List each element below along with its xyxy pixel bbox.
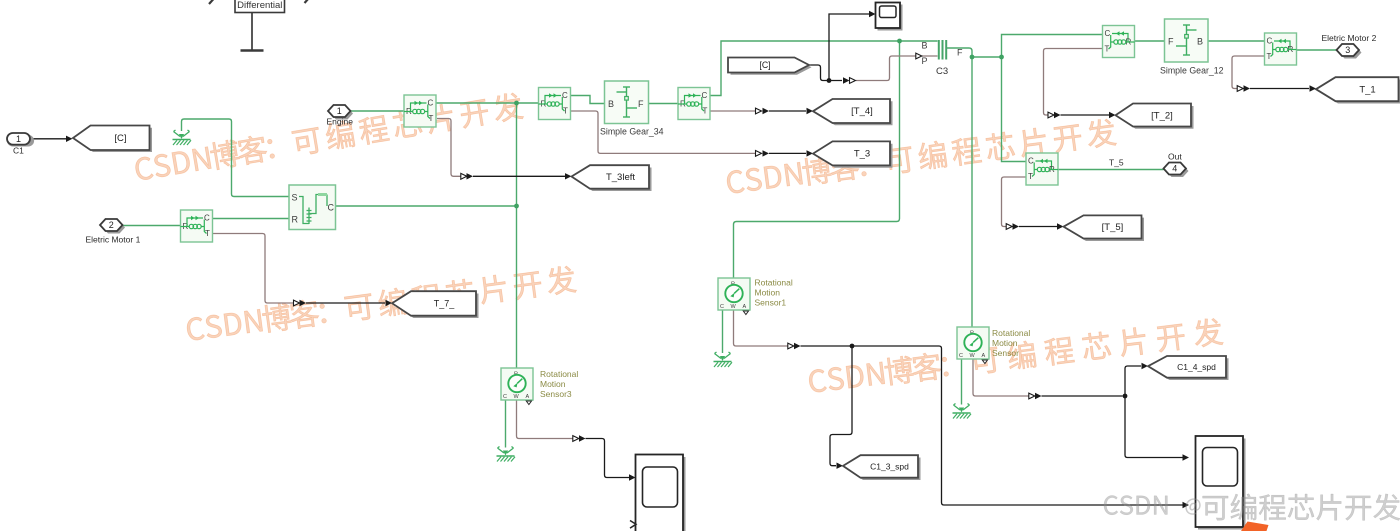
svg-text:[T_5]: [T_5]: [1102, 222, 1124, 233]
svg-text:Differential: Differential: [237, 0, 282, 11]
svg-text:C1_3_spd: C1_3_spd: [870, 462, 909, 472]
svg-text:3: 3: [1345, 45, 1350, 55]
svg-text:Motion: Motion: [540, 379, 566, 389]
svg-text:F: F: [1168, 37, 1174, 47]
svg-text:Out: Out: [1168, 151, 1182, 161]
svg-text:T_7_: T_7_: [434, 298, 456, 308]
svg-text:T_3left: T_3left: [606, 172, 635, 183]
svg-text:P: P: [922, 56, 928, 66]
svg-text:[T_4]: [T_4]: [851, 106, 873, 117]
svg-text:R: R: [292, 215, 299, 225]
svg-text:T_5: T_5: [1109, 158, 1124, 168]
svg-text:4: 4: [1172, 164, 1177, 174]
svg-text:C: C: [328, 203, 335, 213]
svg-text:Simple Gear_12: Simple Gear_12: [1160, 66, 1224, 76]
svg-text:[C]: [C]: [114, 133, 126, 144]
svg-text:Rotational: Rotational: [755, 278, 793, 288]
svg-text:B: B: [608, 99, 614, 109]
svg-text:[C]: [C]: [759, 60, 770, 70]
svg-text:C3: C3: [936, 66, 948, 77]
svg-text:C1: C1: [13, 146, 24, 156]
svg-text:Motion: Motion: [992, 338, 1018, 348]
svg-text:Sensor: Sensor: [992, 348, 1019, 358]
svg-text:T_3: T_3: [854, 149, 870, 160]
svg-text:S: S: [292, 193, 298, 203]
svg-text:2: 2: [109, 220, 114, 230]
svg-text:Rotational: Rotational: [992, 328, 1030, 338]
svg-text:Engine: Engine: [327, 117, 354, 127]
svg-text:1: 1: [16, 134, 21, 144]
svg-text:F: F: [957, 48, 963, 58]
svg-text:Motion: Motion: [755, 288, 781, 298]
svg-text:Rotational: Rotational: [540, 369, 578, 379]
svg-text:F: F: [638, 99, 644, 109]
svg-text:Sensor3: Sensor3: [540, 389, 572, 399]
svg-text:Sensor1: Sensor1: [755, 298, 787, 308]
svg-text:1: 1: [337, 106, 342, 116]
svg-text:T_1: T_1: [1359, 84, 1375, 95]
svg-text:B: B: [1197, 37, 1203, 47]
svg-text:Eletric Motor 2: Eletric Motor 2: [1322, 33, 1377, 43]
svg-text:B: B: [922, 41, 928, 51]
svg-text:Eletric Motor 1: Eletric Motor 1: [86, 235, 141, 245]
svg-text:C1_4_spd: C1_4_spd: [1177, 362, 1216, 372]
svg-text:Simple Gear_34: Simple Gear_34: [600, 127, 664, 137]
svg-text:[T_2]: [T_2]: [1151, 111, 1173, 122]
